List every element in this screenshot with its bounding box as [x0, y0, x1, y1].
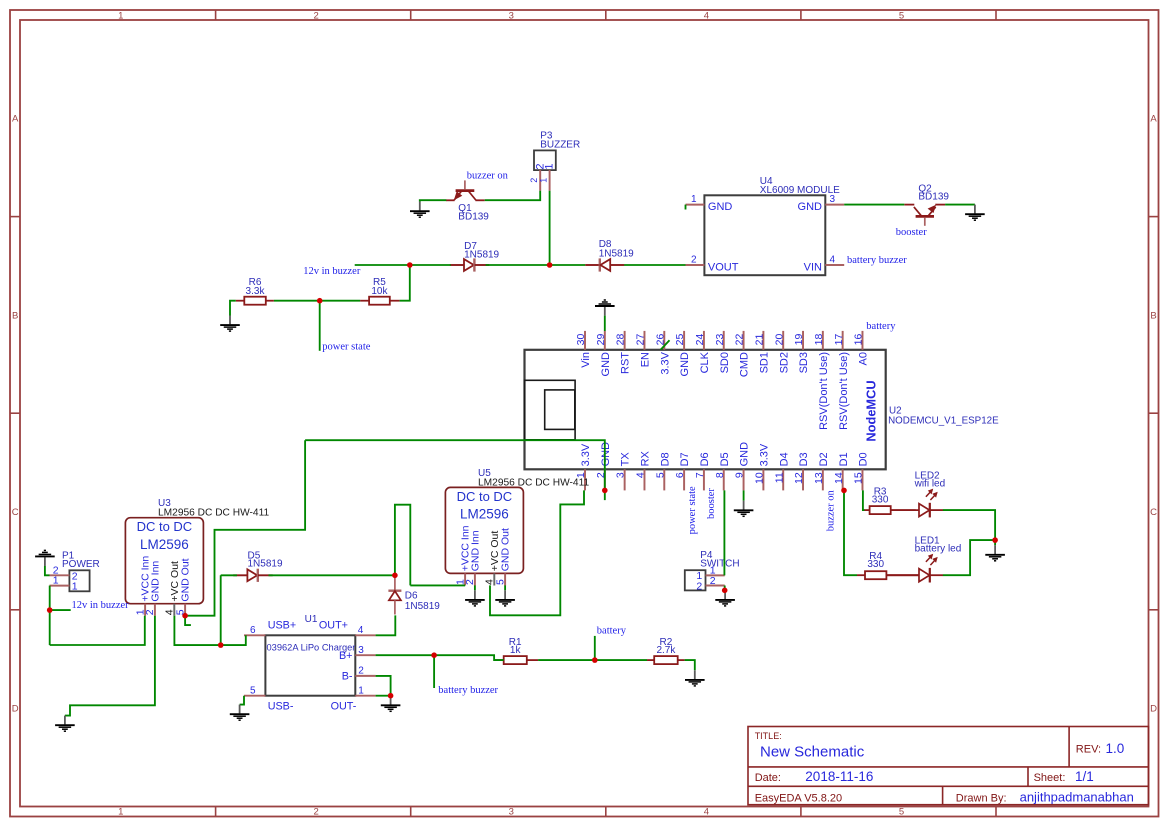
wire: [230, 301, 236, 316]
svg-text:10: 10: [753, 472, 765, 484]
svg-text:VOUT: VOUT: [708, 261, 739, 273]
wire: [376, 655, 504, 660]
U2 pin 26 (3.3V) top: [654, 331, 671, 375]
wire: [220, 575, 222, 645]
svg-text:D4: D4: [778, 452, 790, 466]
R2 labels: [656, 637, 676, 656]
wire: [486, 264, 586, 266]
svg-text:28: 28: [615, 334, 627, 346]
svg-text:10k: 10k: [371, 286, 388, 297]
svg-text:A: A: [12, 114, 19, 125]
ground (U2 pin9): [734, 501, 754, 517]
D6 labels: [405, 591, 440, 612]
wire: [305, 440, 605, 500]
svg-text:USB+: USB+: [268, 620, 297, 632]
node P4.2 ground: [722, 588, 728, 594]
U5 pin 5 (GND Out): [494, 528, 511, 585]
connector P1 POWER body: [69, 570, 89, 591]
P1 pin 2: [50, 564, 78, 582]
U3 pin 2 (GND Inn): [144, 561, 161, 616]
svg-text:GND: GND: [708, 201, 733, 213]
P1 pin 1: [50, 575, 78, 593]
U4 pin 4 (VIN): [804, 255, 845, 274]
P1 designator: [62, 550, 100, 569]
svg-text:30: 30: [575, 334, 587, 346]
svg-text:DC to DC: DC to DC: [457, 489, 513, 504]
wire: [624, 264, 685, 266]
ground (U5 pin5): [495, 590, 515, 606]
svg-text:23: 23: [714, 334, 726, 346]
svg-text:5: 5: [899, 807, 904, 818]
wire: [376, 615, 396, 635]
svg-text:battery buzzer: battery buzzer: [438, 685, 498, 696]
svg-text:battery: battery: [866, 321, 896, 332]
svg-text:3: 3: [830, 194, 836, 205]
svg-text:19: 19: [793, 334, 805, 346]
svg-text:2: 2: [696, 580, 702, 592]
svg-text:A0: A0: [858, 352, 870, 365]
svg-text:SD3: SD3: [798, 352, 810, 373]
wire: [410, 584, 465, 586]
svg-text:25: 25: [674, 334, 686, 346]
transistor Q1 BD139: [446, 180, 485, 200]
svg-text:D3: D3: [798, 452, 810, 466]
ground (U5 pin2): [465, 590, 485, 606]
wire: [549, 191, 551, 265]
svg-text:battery led: battery led: [915, 543, 962, 554]
svg-text:booster: booster: [896, 227, 927, 238]
R1 labels: [509, 637, 522, 656]
P4 pin 2: [696, 575, 724, 593]
svg-text:USB-: USB-: [268, 700, 294, 712]
svg-text:8: 8: [714, 472, 726, 478]
U3 designator: [158, 498, 269, 518]
svg-text:battery: battery: [597, 625, 627, 636]
wire: [943, 510, 995, 545]
svg-text:NodeMCU: NodeMCU: [863, 380, 878, 441]
svg-text:1: 1: [538, 178, 548, 183]
svg-text:RST: RST: [620, 352, 632, 374]
svg-text:16: 16: [853, 334, 865, 346]
svg-text:Vin: Vin: [580, 352, 592, 368]
node 12v-in-buzzer / D7: [407, 262, 413, 268]
svg-text:D: D: [1150, 704, 1157, 715]
IC U4 XL6009 MODULE body: [704, 195, 825, 275]
transistor Q2 BD139: [904, 205, 945, 226]
U2 pin 24 (CLK) top: [694, 331, 711, 374]
svg-text:GND: GND: [798, 201, 823, 213]
svg-text:2: 2: [710, 575, 716, 587]
wire: [240, 696, 244, 705]
svg-text:17: 17: [833, 334, 845, 346]
svg-text:U1: U1: [305, 614, 318, 625]
wire: [185, 440, 305, 616]
U3 pin 5 (GND Out): [174, 558, 191, 615]
svg-text:OUT+: OUT+: [319, 620, 348, 632]
svg-text:A: A: [1150, 114, 1157, 125]
U2 pin 15 (D0) bottom: [853, 452, 870, 490]
R6 labels: [246, 277, 266, 297]
IC U3 LM2956 DC DC HW-411 body: [125, 518, 203, 604]
U2 pin 27 (EN) top: [635, 331, 652, 367]
svg-text:OUT-: OUT-: [331, 700, 357, 712]
svg-text:LM2596: LM2596: [140, 537, 189, 552]
U2 pin 10 (3.3V) bottom: [753, 443, 770, 490]
svg-text:GND: GND: [739, 442, 751, 467]
node U3 pin5: [182, 613, 188, 619]
LED LED2: [891, 489, 943, 518]
wire: [661, 340, 670, 350]
wire: [274, 300, 360, 302]
svg-text:1: 1: [544, 163, 556, 169]
svg-text:GND: GND: [600, 352, 612, 377]
U2 pin 13 (D2) bottom: [813, 452, 830, 490]
svg-text:21: 21: [753, 334, 765, 346]
wire: [433, 655, 435, 688]
svg-text:C: C: [1150, 507, 1157, 518]
P3 pin 2: [529, 163, 546, 190]
svg-text:booster: booster: [706, 488, 717, 519]
U2 pin 7 (D6) bottom: [694, 452, 711, 490]
wire: [319, 301, 321, 351]
svg-text:CMD: CMD: [739, 352, 751, 377]
wire: [400, 265, 410, 301]
U5 designator: [478, 468, 589, 489]
wire: [474, 585, 476, 590]
svg-text:1: 1: [118, 807, 123, 818]
svg-text:12: 12: [793, 472, 805, 484]
U1 pin 5 (USB-): [244, 685, 294, 712]
Q1 designator: [458, 203, 489, 222]
wire: [844, 490, 857, 575]
ground (U3 pin2): [55, 716, 75, 732]
U1 pin 2 (B-): [342, 666, 376, 683]
wire: [376, 695, 391, 697]
svg-text:Sheet:: Sheet:: [1034, 772, 1066, 784]
svg-text:RSV(Don't Use): RSV(Don't Use): [818, 352, 830, 430]
svg-text:2: 2: [144, 609, 156, 615]
wire: [723, 490, 725, 575]
U2 pin 2 (GND) bottom: [595, 442, 612, 491]
svg-text:11: 11: [773, 472, 785, 483]
svg-text:SWITCH: SWITCH: [700, 559, 739, 570]
IC U5 LM2956 DC DC HW-411 body: [445, 487, 523, 573]
svg-text:EasyEDA V5.8.20: EasyEDA V5.8.20: [755, 792, 842, 804]
U2 pin 4 (RX) bottom: [635, 450, 652, 490]
svg-text:18: 18: [813, 334, 825, 346]
U2 pin 11 (D4) bottom: [773, 452, 790, 490]
svg-text:DC to DC: DC to DC: [137, 519, 193, 534]
svg-text:9: 9: [734, 472, 746, 478]
node D5 / U1 USB+: [218, 642, 224, 648]
U2 pin 9 (GND) bottom: [734, 442, 751, 491]
U2 pin 22 (CMD) top: [734, 331, 751, 377]
svg-text:GND Out: GND Out: [500, 528, 512, 571]
svg-text:LM2956 DC DC HW-411: LM2956 DC DC HW-411: [158, 508, 269, 519]
P4 designator: [700, 550, 739, 570]
svg-text:3.3k: 3.3k: [246, 286, 266, 297]
node LED ground: [992, 537, 998, 543]
U4 designator: [760, 176, 840, 196]
svg-text:CLK: CLK: [699, 351, 711, 373]
node battery / R1-R2: [592, 657, 598, 663]
wire: [485, 191, 541, 200]
wire: [685, 205, 687, 210]
R5 labels: [371, 277, 388, 297]
svg-text:4: 4: [830, 255, 836, 266]
U1 pin 3 (B+): [339, 645, 376, 662]
svg-text:330: 330: [872, 494, 889, 505]
wire: [45, 566, 50, 575]
diode D8: [585, 258, 624, 271]
U2 pin 3 (TX) bottom: [615, 452, 632, 491]
D5 labels: [248, 551, 283, 570]
wire: [604, 316, 606, 331]
U2 pin 14 (D1) bottom: [833, 452, 850, 490]
svg-text:3: 3: [615, 472, 627, 478]
svg-text:24: 24: [694, 334, 706, 346]
svg-text:29: 29: [595, 334, 607, 346]
P4 pin 1: [696, 565, 724, 582]
LED LED1: [886, 554, 943, 583]
svg-text:VIN: VIN: [804, 261, 822, 273]
svg-text:B: B: [1150, 310, 1156, 321]
D7 labels: [464, 241, 499, 260]
svg-text:GND: GND: [600, 442, 612, 467]
ground (U1 pin5): [230, 705, 250, 721]
svg-text:NODEMCU_V1_ESP12E: NODEMCU_V1_ESP12E: [888, 415, 999, 426]
node 12v-in-buzzer / P1.1: [47, 607, 53, 613]
U2 pin 18 (RSV(Don't Use)) top: [813, 331, 830, 430]
wire: [50, 609, 71, 611]
wire: [724, 586, 726, 591]
svg-text:1.0: 1.0: [1106, 741, 1125, 756]
D8 labels: [599, 239, 634, 260]
svg-text:2: 2: [358, 666, 364, 677]
U3 pin 1 (+VCC Inn): [134, 556, 151, 616]
svg-text:1N5819: 1N5819: [599, 249, 634, 260]
resistor R2: [647, 656, 685, 664]
LED1 labels: [915, 535, 962, 554]
U2 pin 17 (RSV(Don't Use)) top: [833, 331, 850, 430]
resistor R4: [857, 571, 919, 579]
svg-text:1N5819: 1N5819: [248, 559, 283, 570]
svg-text:power state: power state: [687, 486, 698, 534]
wire: [594, 636, 596, 660]
wire: [844, 204, 904, 206]
U4 pin 2 (VOUT): [686, 255, 739, 274]
U3 pin 4 (+VC Out): [164, 561, 181, 616]
svg-text:power state: power state: [322, 341, 370, 352]
connector P4 SWITCH body: [685, 570, 706, 590]
wire: [490, 490, 584, 615]
svg-text:2: 2: [314, 807, 319, 818]
ground (P4): [715, 590, 735, 606]
Q2 designator: [918, 183, 949, 202]
ground (U1 pin1): [381, 696, 401, 712]
wire: [269, 574, 395, 576]
IC U1 03962A LiPo Charger body: [265, 635, 355, 695]
svg-text:13: 13: [813, 472, 825, 484]
node D5-D6: [392, 573, 398, 579]
R4 labels: [867, 551, 884, 570]
svg-text:4: 4: [704, 11, 709, 22]
svg-text:anjithpadmanabhan: anjithpadmanabhan: [1020, 790, 1134, 805]
svg-text:New Schematic: New Schematic: [760, 743, 865, 760]
svg-text:3: 3: [509, 11, 514, 22]
wire: [376, 676, 391, 696]
svg-text:RSV(Don't Use): RSV(Don't Use): [838, 352, 850, 430]
U2 pin 16 (A0) top: [853, 331, 870, 366]
svg-text:RX: RX: [640, 450, 652, 466]
wire: [221, 574, 237, 576]
svg-text:6: 6: [250, 625, 256, 636]
svg-text:B+: B+: [339, 650, 353, 662]
svg-text:POWER: POWER: [62, 559, 100, 570]
node D7-D8 / P3.1: [547, 262, 553, 268]
svg-text:buzzer on: buzzer on: [467, 171, 509, 182]
svg-text:2: 2: [464, 579, 476, 585]
svg-text:D6: D6: [699, 452, 711, 466]
U2 pin 30 (Vin) top: [575, 331, 592, 368]
svg-text:buzzer on: buzzer on: [826, 489, 837, 531]
wire: [538, 659, 647, 661]
svg-text:4: 4: [358, 625, 364, 636]
svg-text:D7: D7: [679, 452, 691, 466]
svg-text:BUZZER: BUZZER: [540, 139, 580, 150]
U2 pin 23 (SD0) top: [714, 331, 731, 374]
svg-text:1: 1: [72, 581, 78, 593]
U2 pin 29 (GND) top: [595, 331, 612, 377]
svg-text:LM2596: LM2596: [460, 507, 509, 522]
ground (R6): [220, 316, 240, 332]
svg-text:14: 14: [833, 472, 845, 484]
U2 pin 6 (D7) bottom: [674, 452, 691, 490]
svg-text:2.7k: 2.7k: [656, 645, 676, 656]
wire: [185, 616, 191, 625]
svg-text:4: 4: [635, 472, 647, 478]
svg-text:D1: D1: [838, 452, 850, 466]
wire: [50, 616, 145, 645]
wire: [743, 490, 745, 500]
node OUT- ground: [388, 693, 394, 699]
svg-text:15: 15: [853, 472, 865, 484]
svg-text:LM2956 DC DC HW-411: LM2956 DC DC HW-411: [478, 477, 589, 488]
svg-text:3: 3: [509, 807, 514, 818]
svg-text:20: 20: [773, 334, 785, 346]
U4 pin 1 (GND): [686, 194, 733, 213]
svg-text:Date:: Date:: [755, 772, 781, 784]
connector P3 BUZZER body: [534, 150, 556, 170]
svg-text:26: 26: [654, 334, 666, 346]
svg-text:SD0: SD0: [719, 352, 731, 373]
ground (U2 pin29, flipped): [595, 300, 615, 316]
resistor R6: [236, 297, 274, 305]
svg-text:5: 5: [250, 685, 256, 696]
wire: [504, 585, 506, 590]
svg-text:BD139: BD139: [918, 192, 949, 203]
svg-text:BD139: BD139: [458, 211, 489, 222]
svg-text:B-: B-: [342, 671, 353, 683]
ground (R2): [685, 670, 705, 686]
svg-text:1/1: 1/1: [1075, 769, 1094, 784]
wire: [49, 586, 51, 645]
wire: [174, 616, 245, 645]
svg-text:D8: D8: [659, 452, 671, 466]
svg-text:2: 2: [314, 11, 319, 22]
svg-text:3.3V: 3.3V: [758, 443, 770, 466]
U2 designator: [888, 405, 999, 426]
node battery-buzzer / B+: [431, 652, 437, 658]
svg-text:2: 2: [691, 255, 697, 266]
svg-text:Drawn By:: Drawn By:: [956, 792, 1007, 804]
svg-text:1: 1: [691, 194, 697, 205]
svg-text:330: 330: [867, 559, 884, 570]
svg-text:wifi led: wifi led: [914, 478, 946, 489]
svg-text:4: 4: [704, 807, 709, 818]
svg-text:GND Out: GND Out: [180, 558, 192, 601]
node power-state: [317, 298, 323, 304]
svg-text:6: 6: [674, 472, 686, 478]
ground (LED): [985, 545, 1005, 561]
U5 pin 1 (+VCC Inn): [454, 525, 471, 585]
svg-text:SD2: SD2: [778, 352, 790, 373]
svg-text:XL6009 MODULE: XL6009 MODULE: [760, 185, 840, 196]
wire: [395, 505, 410, 586]
U2 pin 25 (GND) top: [674, 331, 691, 377]
wire: [863, 490, 865, 510]
resistor R5: [360, 297, 400, 305]
svg-text:GND Inn: GND Inn: [470, 530, 482, 571]
svg-text:C: C: [12, 507, 19, 518]
svg-text:SD1: SD1: [758, 352, 770, 373]
svg-text:GND: GND: [679, 352, 691, 377]
diode D6: [388, 575, 401, 614]
LED2 labels: [914, 470, 946, 489]
ground (Q2): [965, 205, 985, 221]
ground (P1, flipped): [35, 550, 55, 566]
svg-text:1: 1: [53, 575, 59, 587]
svg-text:27: 27: [635, 334, 647, 346]
node U2 pin14: [841, 488, 847, 494]
U2 pin 8 (D5) bottom: [714, 452, 731, 490]
svg-text:22: 22: [734, 334, 746, 346]
diode D5: [233, 569, 273, 582]
U5 pin 4 (+VC Out): [484, 531, 501, 586]
svg-text:7: 7: [694, 472, 706, 478]
svg-text:3: 3: [358, 645, 364, 656]
svg-text:12v in buzzer: 12v in buzzer: [303, 266, 361, 277]
svg-text:D: D: [12, 704, 19, 715]
U1 pin 4 (OUT+): [319, 620, 376, 636]
title block: [748, 727, 1149, 806]
svg-text:1: 1: [358, 685, 364, 696]
U2 pin 19 (SD3) top: [793, 331, 810, 374]
P3 pin 1: [538, 163, 555, 190]
svg-text:TX: TX: [620, 452, 632, 467]
svg-text:EN: EN: [640, 352, 652, 367]
U2 pin 12 (D3) bottom: [793, 452, 810, 490]
svg-text:1N5819: 1N5819: [464, 250, 499, 261]
svg-text:1N5819: 1N5819: [405, 601, 440, 612]
svg-text:D5: D5: [719, 452, 731, 466]
svg-text:TITLE:: TITLE:: [755, 731, 782, 741]
wire: [943, 540, 995, 575]
resistor R1: [494, 656, 538, 664]
U2 pin 20 (SD2) top: [773, 331, 790, 374]
wire: [355, 264, 451, 266]
diode D7: [450, 258, 490, 271]
